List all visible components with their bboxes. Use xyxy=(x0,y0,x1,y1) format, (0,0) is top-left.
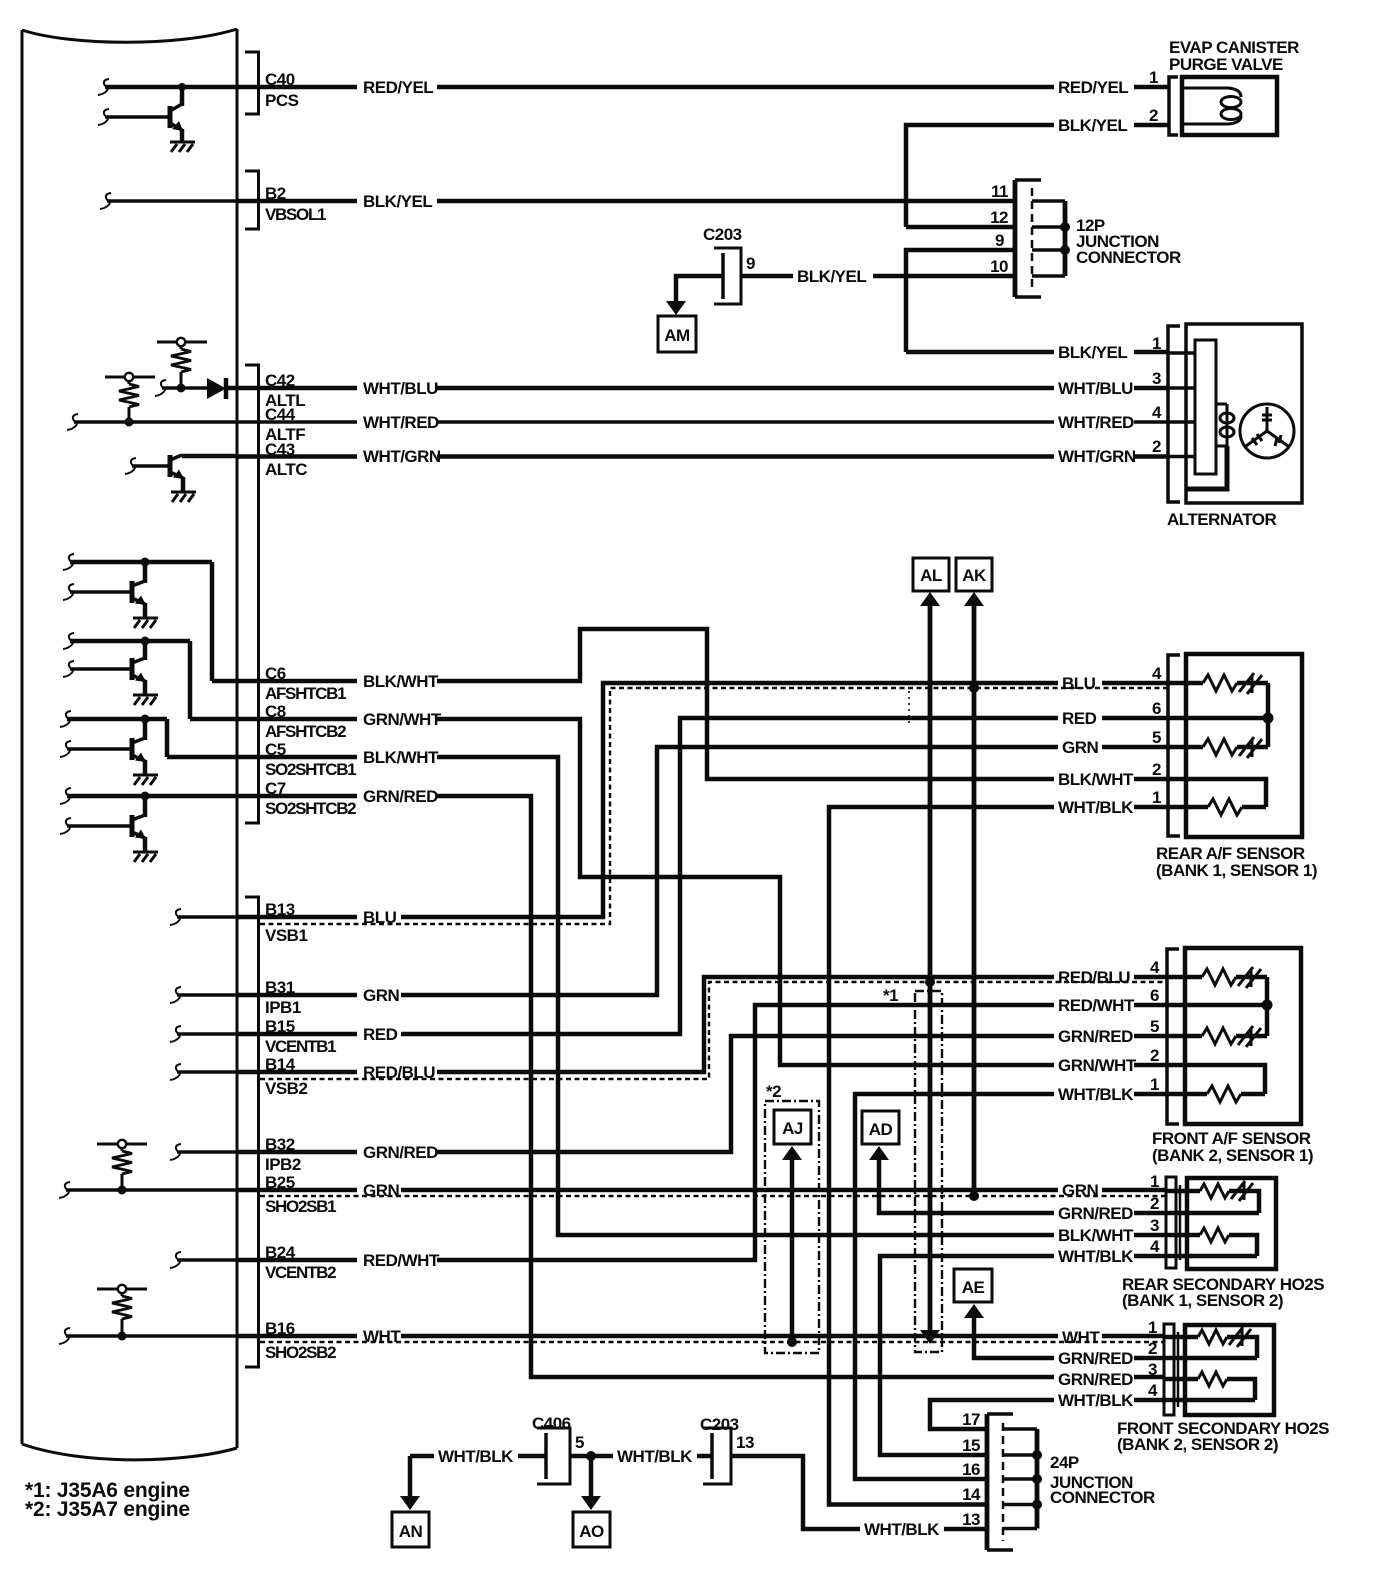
ECM/PCM box (torn-edge outline) xyxy=(22,29,237,1460)
connector rear secondary HO2S xyxy=(1166,1177,1180,1268)
alternator case ground link xyxy=(1186,446,1227,489)
svg-text:GRN/RED: GRN/RED xyxy=(1058,1349,1133,1368)
wire B24 internal stub xyxy=(177,1258,237,1262)
transistor Q1 (PCS driver) xyxy=(105,83,186,142)
wire VSB2 (dashed variant) xyxy=(260,982,1165,1079)
transistor Q5 (SO2SHTCB1 driver) xyxy=(67,715,237,775)
svg-text:RED/BLU: RED/BLU xyxy=(1058,968,1130,987)
wire C42 WHT/BLU to alternator pin 3 xyxy=(226,386,1168,391)
svg-text:12: 12 xyxy=(990,208,1008,227)
wire 12P pin 12 xyxy=(906,225,1015,230)
wire C40 RED/YEL to EVAP pin 1 xyxy=(182,85,1169,90)
wire alternator pin 1 BLK/YEL xyxy=(906,350,1168,355)
svg-text:1: 1 xyxy=(1150,1172,1159,1191)
rear secondary HO2S pin stubs xyxy=(1166,1191,1200,1256)
wire continuation mark C44 xyxy=(67,414,78,430)
front A/F sensor body xyxy=(1185,948,1301,1124)
wire AJ vertical link xyxy=(790,1160,795,1342)
svg-text:13: 13 xyxy=(736,1433,754,1452)
wire bottom WHT/BLK chain C406 to C203 xyxy=(570,1454,712,1459)
wire C203 BLK/YEL to 12P pin 10 xyxy=(741,274,1015,279)
svg-text:11: 11 xyxy=(991,182,1008,201)
svg-text:GRN/RED: GRN/RED xyxy=(1058,1204,1133,1223)
svg-text:BLK/WHT: BLK/WHT xyxy=(1058,770,1134,789)
svg-text:GRN/RED: GRN/RED xyxy=(363,1143,438,1162)
junction dot AL at RED/BLU xyxy=(925,977,935,987)
svg-text:*1: *1 xyxy=(883,986,898,1005)
svg-text:C40: C40 xyxy=(265,70,295,89)
wire continuation mark Q1 base xyxy=(98,109,109,125)
ground (Q2 emitter) xyxy=(171,492,196,502)
wire continuation marks Q3 xyxy=(63,554,74,570)
node AO (off-page reference) xyxy=(573,1496,610,1547)
svg-text:3: 3 xyxy=(1152,369,1161,388)
wire SHO2SB2 (dashed variant) xyxy=(260,1341,1163,1343)
svg-text:15: 15 xyxy=(962,1436,980,1455)
solenoid coil (EVAP valve) xyxy=(1184,88,1241,124)
svg-text:(BANK 2, SENSOR 2): (BANK 2, SENSOR 2) xyxy=(1117,1435,1278,1454)
wire B2 BLK/YEL to 12P pin 11 xyxy=(237,199,1015,204)
svg-text:(BANK 2, SENSOR 1): (BANK 2, SENSOR 1) xyxy=(1152,1146,1313,1165)
svg-text:WHT/BLK: WHT/BLK xyxy=(1058,798,1134,817)
wire continuation mark D1 xyxy=(155,380,166,396)
wire continuation mark B16 xyxy=(59,1328,70,1344)
wire B25 GRN to rear secondary HO2S pin 1 xyxy=(237,1188,1166,1193)
svg-text:IPB1: IPB1 xyxy=(265,998,301,1017)
wire front A/F pin 1 WHT/BLK to 24P pin 16 xyxy=(855,1094,1166,1479)
connector pin numbers xyxy=(962,68,1162,1529)
svg-text:BLK/WHT: BLK/WHT xyxy=(1058,1226,1134,1245)
svg-text:CONNECTOR: CONNECTOR xyxy=(1050,1488,1155,1507)
svg-text:WHT: WHT xyxy=(1062,1328,1100,1347)
wire continuation marks Q5 xyxy=(60,711,71,727)
svg-text:WHT/BLK: WHT/BLK xyxy=(1058,1247,1134,1266)
svg-text:AO: AO xyxy=(579,1522,604,1541)
variant riser dotted (above *1 box) xyxy=(908,691,910,726)
svg-text:RED: RED xyxy=(1062,709,1097,728)
svg-text:C203: C203 xyxy=(703,225,742,244)
component names xyxy=(532,38,1329,1507)
svg-text:C7: C7 xyxy=(265,779,286,798)
ground (Q1 emitter) xyxy=(170,142,195,152)
wire B16 WHT to front secondary HO2S pin 1 xyxy=(237,1334,1164,1339)
wire SHO2SB1 (dashed variant) xyxy=(260,1195,1165,1197)
svg-text:BLK/YEL: BLK/YEL xyxy=(1058,343,1127,362)
svg-text:4: 4 xyxy=(1152,403,1162,422)
wire B15 internal stub xyxy=(177,1032,237,1036)
svg-text:AL: AL xyxy=(920,566,942,585)
wire B32 internal stub xyxy=(177,1150,237,1154)
junction dot AO branch xyxy=(586,1451,596,1461)
front secondary HO2S body xyxy=(1185,1325,1274,1415)
svg-text:B16: B16 xyxy=(265,1319,295,1338)
wire C6 BLK/WHT to rear A/F pin 2 xyxy=(237,629,1168,779)
front secondary HO2S sensor element (pins 1-2) xyxy=(1185,1327,1257,1358)
svg-text:ALTC: ALTC xyxy=(265,460,307,479)
svg-text:BLK/YEL: BLK/YEL xyxy=(797,267,866,286)
wire B14 RED/BLU to front A/F pin 4 xyxy=(237,977,1166,1072)
svg-text:C6: C6 xyxy=(265,664,286,683)
svg-text:2: 2 xyxy=(1152,437,1161,456)
svg-text:B25: B25 xyxy=(265,1173,295,1192)
node AN (off-page reference) xyxy=(392,1496,429,1547)
wire C44 internal xyxy=(74,420,237,424)
svg-text:VSB2: VSB2 xyxy=(265,1079,307,1098)
svg-text:10: 10 xyxy=(990,257,1008,276)
wire B24 RED/WHT to front A/F pin 6 xyxy=(237,1005,1166,1260)
node AJ (off-page reference) xyxy=(774,1110,811,1160)
rear A/F sensor element (pins 4-6-5) xyxy=(1186,673,1274,758)
svg-text:IPB2: IPB2 xyxy=(265,1155,301,1174)
svg-text:WHT/BLK: WHT/BLK xyxy=(864,1520,940,1539)
junction dot AK at BLU dashed xyxy=(969,683,979,693)
svg-text:3: 3 xyxy=(1148,1360,1157,1379)
svg-text:4: 4 xyxy=(1150,1237,1160,1256)
svg-text:(BANK 1, SENSOR 2): (BANK 1, SENSOR 2) xyxy=(1122,1291,1283,1310)
svg-text:WHT/BLK: WHT/BLK xyxy=(617,1447,693,1466)
transistor Q2 (ALTC driver) xyxy=(132,455,237,491)
wire C5 BLK/WHT to rear secondary HO2S pin 3 xyxy=(237,757,1166,1235)
wire B13 internal stub xyxy=(177,915,237,919)
svg-text:C42: C42 xyxy=(265,371,295,390)
svg-text:WHT/GRN: WHT/GRN xyxy=(1058,447,1136,466)
wire VSB1 (dashed variant) xyxy=(260,688,1167,924)
svg-text:RED: RED xyxy=(363,1025,398,1044)
svg-text:AFSHTCB1: AFSHTCB1 xyxy=(265,684,346,703)
ground (Q3 emitter) xyxy=(133,618,158,628)
transistor Q6 (SO2SHTCB2 driver) xyxy=(67,792,237,852)
wire B2 internal stub xyxy=(107,199,237,203)
svg-text:GRN/RED: GRN/RED xyxy=(1058,1027,1133,1046)
svg-text:5: 5 xyxy=(575,1433,584,1452)
alternator field coil xyxy=(1216,404,1234,446)
svg-text:CONNECTOR: CONNECTOR xyxy=(1076,248,1181,267)
svg-text:WHT: WHT xyxy=(363,1327,401,1346)
wire front secondary HO2S pin 4 WHT/BLK to 24P pin 17 xyxy=(930,1400,1164,1429)
svg-text:9: 9 xyxy=(995,231,1004,250)
svg-text:2: 2 xyxy=(1148,1339,1157,1358)
svg-text:RED/WHT: RED/WHT xyxy=(363,1251,440,1270)
svg-text:*2: J35A7 engine: *2: J35A7 engine xyxy=(25,1498,190,1521)
wire C44 WHT/RED to alternator pin 4 xyxy=(237,420,1168,424)
svg-text:13: 13 xyxy=(962,1510,980,1529)
svg-text:C44: C44 xyxy=(265,405,296,424)
12P junction connector body xyxy=(1015,180,1070,297)
svg-text:B32: B32 xyxy=(265,1135,295,1154)
svg-text:(BANK 1, SENSOR 1): (BANK 1, SENSOR 1) xyxy=(1156,861,1317,880)
svg-text:SO2SHTCB2: SO2SHTCB2 xyxy=(265,799,356,818)
svg-text:24P: 24P xyxy=(1050,1453,1079,1472)
rear A/F sensor pin stubs xyxy=(1168,683,1203,807)
front A/F sensor pin stubs xyxy=(1166,977,1202,1094)
wire AD to rear secondary HO2S pin 2 GRN/RED xyxy=(879,1159,1166,1213)
svg-text:GRN/RED: GRN/RED xyxy=(363,787,438,806)
svg-text:1: 1 xyxy=(1150,1075,1159,1094)
wire bottom WHT/BLK chain C203 to 24P pin 13 xyxy=(731,1456,987,1529)
svg-text:2: 2 xyxy=(1150,1194,1159,1213)
engine variant notes xyxy=(25,1479,190,1521)
wire continuation mark B2 xyxy=(100,193,111,209)
svg-text:AFSHTCB2: AFSHTCB2 xyxy=(265,722,346,741)
transistor Q4 (AFSHTCB2 driver) xyxy=(70,637,237,720)
wire AK vertical link xyxy=(972,604,977,1196)
wire colour labels (left) xyxy=(363,78,442,1346)
svg-text:RED/YEL: RED/YEL xyxy=(363,78,433,97)
wire colour labels (right) xyxy=(438,78,1137,1539)
svg-text:AD: AD xyxy=(869,1120,893,1139)
wire bottom WHT/BLK chain left of C406 xyxy=(410,1454,546,1459)
svg-text:VSB1: VSB1 xyxy=(265,926,307,945)
svg-text:WHT/BLU: WHT/BLU xyxy=(1058,379,1133,398)
junction dot AJ at WHT dashed xyxy=(787,1337,797,1347)
svg-text:1: 1 xyxy=(1152,788,1161,807)
wire AO branch xyxy=(589,1456,594,1499)
front secondary HO2S heater (pins 3-4) xyxy=(1185,1372,1255,1400)
bracket C42..C7 group xyxy=(245,365,259,823)
svg-text:6: 6 xyxy=(1152,699,1161,718)
svg-text:AJ: AJ xyxy=(782,1119,803,1138)
diode D1 (ALTL) xyxy=(162,378,226,399)
wire B14 internal stub xyxy=(177,1070,237,1074)
svg-text:BLK/YEL: BLK/YEL xyxy=(1058,116,1127,135)
svg-text:C5: C5 xyxy=(265,740,286,759)
arrowhead AL bottom (to WHT dashed) xyxy=(920,1330,940,1344)
svg-text:RED/YEL: RED/YEL xyxy=(1058,78,1128,97)
svg-text:AM: AM xyxy=(664,326,690,345)
svg-text:SHO2SB2: SHO2SB2 xyxy=(265,1343,336,1362)
resistor R2 (ALTF pull-up) xyxy=(105,373,155,427)
svg-text:PCS: PCS xyxy=(265,91,299,110)
svg-text:PURGE VALVE: PURGE VALVE xyxy=(1169,55,1283,74)
svg-text:VCENTB1: VCENTB1 xyxy=(265,1037,336,1056)
wire AL vertical link xyxy=(928,604,933,1331)
label gaps (white) xyxy=(357,78,1134,1538)
wire B13 BLU to rear A/F pin 4 xyxy=(237,683,1168,917)
svg-text:4: 4 xyxy=(1152,664,1162,683)
connector bracket front A/F sensor xyxy=(1167,949,1179,1124)
svg-text:AE: AE xyxy=(962,1278,985,1297)
svg-text:GRN/RED: GRN/RED xyxy=(1058,1370,1133,1389)
svg-text:GRN: GRN xyxy=(363,1181,400,1200)
resistor R3 (SHO2SB1 pull-up) xyxy=(97,1140,147,1195)
svg-text:1: 1 xyxy=(1152,334,1161,353)
connector bracket EVAP canister purge valve xyxy=(1169,77,1178,135)
wire EVAP pin 2 BLK/YEL xyxy=(906,125,1169,227)
ground (Q4 emitter) xyxy=(133,695,158,705)
wire AE to front secondary HO2S pin 2 GRN/RED xyxy=(974,1316,1164,1358)
wire continuation mark Q1 collector xyxy=(98,79,109,95)
transistor Q3 (AFSHTCB1 driver) xyxy=(70,558,237,682)
connector front secondary HO2S xyxy=(1164,1324,1178,1415)
svg-text:B2: B2 xyxy=(265,184,286,203)
svg-text:WHT/BLU: WHT/BLU xyxy=(363,379,438,398)
svg-text:C8: C8 xyxy=(265,702,286,721)
svg-text:B14: B14 xyxy=(265,1055,296,1074)
svg-text:BLU: BLU xyxy=(363,908,397,927)
rear secondary HO2S sensor element (pins 1-2) xyxy=(1187,1181,1259,1213)
svg-text:C43: C43 xyxy=(265,440,295,459)
svg-text:4: 4 xyxy=(1148,1381,1158,1400)
wire C7 GRN/RED to front secondary HO2S pin 3 xyxy=(237,796,1164,1377)
connector C203 (pin 13) xyxy=(703,1428,731,1484)
front secondary HO2S pin stubs xyxy=(1164,1337,1198,1400)
svg-text:14: 14 xyxy=(962,1485,981,1504)
rear secondary HO2S body xyxy=(1187,1178,1276,1269)
wire B16 internal xyxy=(66,1334,237,1338)
node AK (off-page reference) xyxy=(956,558,992,606)
node AL (off-page reference) xyxy=(913,558,949,606)
svg-text:1: 1 xyxy=(1149,68,1158,87)
svg-text:WHT/RED: WHT/RED xyxy=(1058,413,1134,432)
svg-text:5: 5 xyxy=(1152,728,1161,747)
svg-text:GRN/WHT: GRN/WHT xyxy=(363,710,442,729)
wire C8 GRN/WHT to front A/F pin 2 xyxy=(237,719,1166,1065)
node AM (off-page reference) xyxy=(658,301,696,352)
svg-text:GRN/WHT: GRN/WHT xyxy=(1058,1056,1137,1075)
variant box *1 (J35A6 engine) xyxy=(915,991,942,1352)
wire continuation mark B25 xyxy=(59,1182,70,1198)
svg-text:2: 2 xyxy=(1152,760,1161,779)
svg-text:SHO2SB1: SHO2SB1 xyxy=(265,1197,336,1216)
svg-text:WHT/RED: WHT/RED xyxy=(363,413,439,432)
svg-text:C203: C203 xyxy=(700,1415,739,1434)
wire C43 WHT/GRN to alternator pin 2 xyxy=(237,454,1168,459)
wire B25 internal xyxy=(66,1188,237,1192)
svg-text:2: 2 xyxy=(1150,1046,1159,1065)
resistor R1 (ALTL pull-up) xyxy=(157,338,207,393)
wire B31 internal stub xyxy=(177,993,237,997)
svg-text:WHT/BLK: WHT/BLK xyxy=(1058,1391,1134,1410)
ground (Q5 emitter) xyxy=(133,775,158,785)
ECM pin labels xyxy=(265,70,356,1362)
bracket B2/VBSOL1 group xyxy=(245,171,259,229)
wire continuation marks Q4 xyxy=(63,633,74,649)
svg-text:4: 4 xyxy=(1150,958,1160,977)
wire AN branch xyxy=(408,1456,413,1499)
svg-text:VBSOL1: VBSOL1 xyxy=(265,205,326,224)
connector C406 (pin 5) xyxy=(537,1428,570,1484)
svg-text:B24: B24 xyxy=(265,1243,296,1262)
svg-text:RED/WHT: RED/WHT xyxy=(1058,996,1135,1015)
svg-text:BLK/WHT: BLK/WHT xyxy=(363,672,439,691)
svg-text:6: 6 xyxy=(1150,986,1159,1005)
svg-text:5: 5 xyxy=(1150,1017,1159,1036)
wire rear secondary HO2S pin 4 WHT/BLK to 24P pin 15 xyxy=(880,1256,1166,1455)
node AE (off-page reference) xyxy=(954,1269,992,1318)
svg-text:BLK/WHT: BLK/WHT xyxy=(363,748,439,767)
svg-text:BLU: BLU xyxy=(1062,674,1096,693)
svg-text:BLK/YEL: BLK/YEL xyxy=(363,192,432,211)
variant box *2 (J35A7 engine) xyxy=(765,1101,819,1353)
EVAP canister purge valve body xyxy=(1182,77,1277,135)
svg-text:VCENTB2: VCENTB2 xyxy=(265,1263,336,1282)
connector C203 (engine harness, pin 9) xyxy=(714,248,741,304)
wire B15 RED to rear A/F pin 6 xyxy=(237,718,1168,1034)
bracket B13..B16 group xyxy=(245,897,259,1367)
svg-text:AK: AK xyxy=(962,566,987,585)
connector bracket alternator xyxy=(1168,326,1180,502)
alternator stator windings xyxy=(1240,404,1294,458)
svg-text:WHT/GRN: WHT/GRN xyxy=(363,447,441,466)
svg-text:WHT/BLK: WHT/BLK xyxy=(438,1447,514,1466)
front A/F sensor element (pins 4-6-5) xyxy=(1185,967,1273,1047)
svg-text:ALTERNATOR: ALTERNATOR xyxy=(1167,510,1276,529)
svg-text:B13: B13 xyxy=(265,900,295,919)
svg-text:GRN: GRN xyxy=(363,986,400,1005)
wire C203 to AM branch xyxy=(676,276,723,303)
svg-text:AN: AN xyxy=(399,1522,423,1541)
svg-text:*2: *2 xyxy=(766,1082,781,1101)
24P junction connector body xyxy=(987,1414,1042,1550)
wire 12P pin 9 to alternator pin 1 link xyxy=(906,250,1015,352)
resistor R4 (SHO2SB2 pull-up) xyxy=(97,1285,147,1341)
svg-text:SO2SHTCB1: SO2SHTCB1 xyxy=(265,760,356,779)
svg-text:C406: C406 xyxy=(532,1414,571,1433)
junction dot AK at GRN dashed xyxy=(969,1191,979,1201)
svg-text:RED/BLU: RED/BLU xyxy=(363,1063,435,1082)
alternator body xyxy=(1186,324,1302,503)
wire continuation mark Q2 base xyxy=(125,458,136,474)
svg-text:1: 1 xyxy=(1148,1318,1157,1337)
rear A/F sensor heater (pins 2-1) xyxy=(1186,779,1266,815)
node AD (off-page reference) xyxy=(862,1111,899,1160)
svg-text:2: 2 xyxy=(1149,106,1158,125)
svg-text:16: 16 xyxy=(962,1460,980,1479)
wire B32 GRN/RED to front A/F pin 5 xyxy=(237,1036,1166,1152)
bracket C40/PCS group xyxy=(245,52,259,114)
wire rear A/F pin 1 WHT/BLK to 24P pin 14 xyxy=(829,807,1168,1505)
rear A/F sensor body xyxy=(1186,654,1302,837)
svg-text:9: 9 xyxy=(746,254,755,273)
rear secondary HO2S heater (pins 3-4) xyxy=(1187,1228,1257,1256)
svg-text:B15: B15 xyxy=(265,1017,295,1036)
svg-text:17: 17 xyxy=(962,1410,980,1429)
alternator connector insert xyxy=(1168,340,1216,474)
svg-text:GRN: GRN xyxy=(1062,738,1099,757)
svg-text:3: 3 xyxy=(1150,1216,1159,1235)
svg-text:B31: B31 xyxy=(265,978,295,997)
front A/F sensor heater (pins 2-1) xyxy=(1185,1065,1265,1102)
wire continuation marks Q6 xyxy=(60,788,71,804)
ground (Q6 emitter) xyxy=(133,852,158,862)
svg-text:GRN: GRN xyxy=(1062,1181,1099,1200)
svg-text:WHT/BLK: WHT/BLK xyxy=(1058,1085,1134,1104)
wire B31 GRN to rear A/F pin 5 xyxy=(237,747,1168,995)
connector bracket rear A/F sensor xyxy=(1168,655,1180,836)
